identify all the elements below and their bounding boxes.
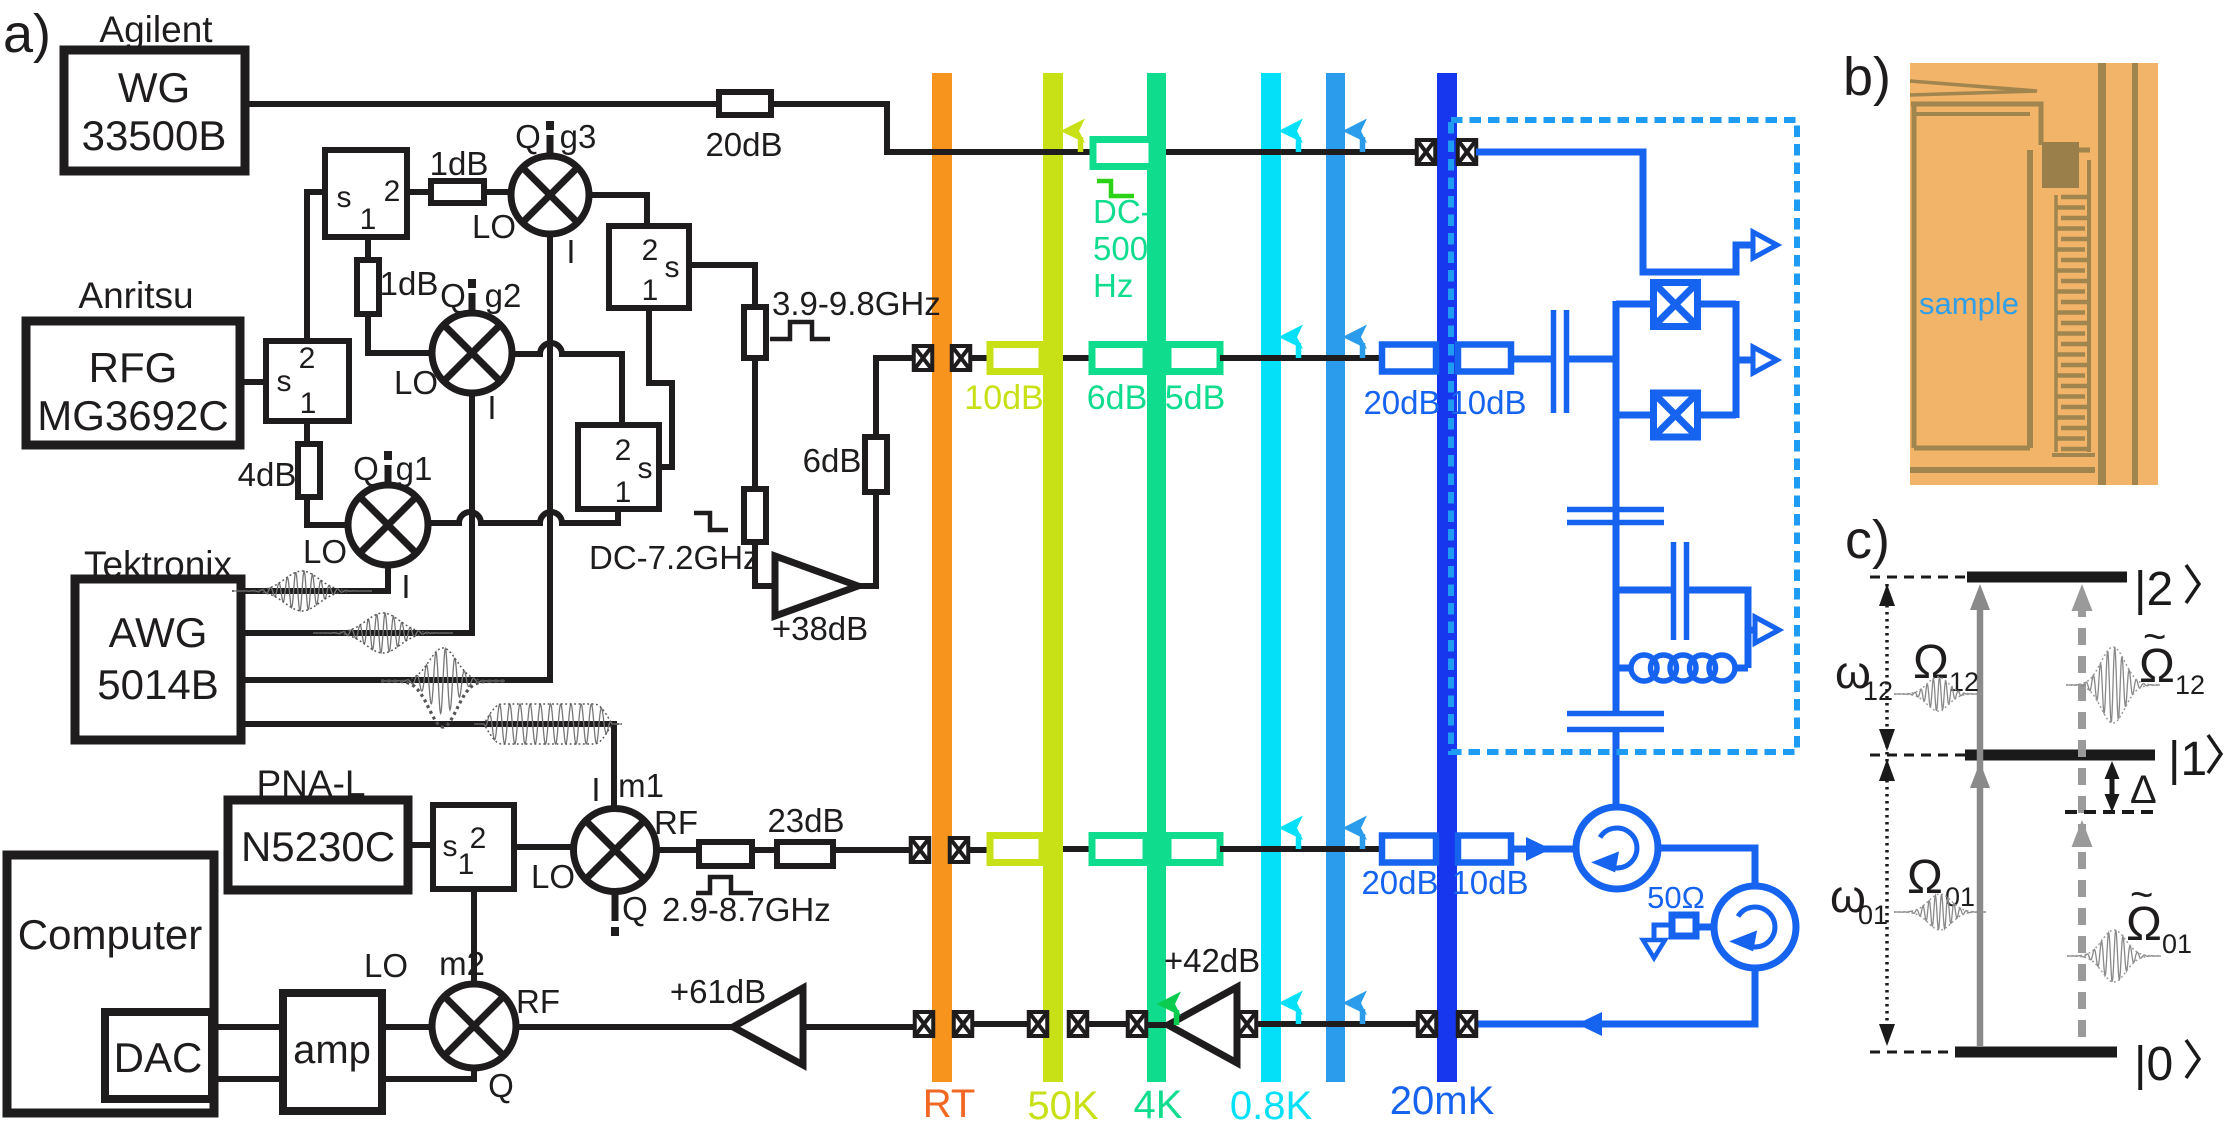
wire S2 s to bandpass bbox=[689, 265, 755, 307]
wire flux line mid bbox=[1166, 149, 1418, 155]
wire ret a bbox=[1256, 1021, 1418, 1027]
g3 Q stub bbox=[546, 121, 554, 157]
instrument DAC bbox=[105, 1012, 212, 1099]
svg-text:s: s bbox=[638, 452, 653, 485]
label LO of m1 bbox=[531, 858, 575, 895]
svg-text:500: 500 bbox=[1093, 230, 1148, 267]
amplifier +38dB bbox=[775, 556, 858, 616]
wire g3 out to S2 port2 bbox=[589, 195, 647, 226]
panel label c) bbox=[1845, 510, 1890, 570]
wire drive line a bbox=[970, 355, 994, 361]
label 10dB drive b bbox=[1449, 384, 1526, 421]
label I of g2 bbox=[487, 389, 496, 426]
label RT bbox=[923, 1082, 976, 1125]
svg-text:20dB: 20dB bbox=[705, 126, 782, 163]
svg-text:1dB: 1dB bbox=[380, 265, 439, 302]
label Omega01 tilde bbox=[2126, 873, 2192, 959]
instrument AWG 5014B bbox=[75, 579, 241, 740]
svg-text:b): b) bbox=[1843, 47, 1891, 107]
svg-text:Q: Q bbox=[488, 1067, 514, 1104]
svg-text:m1: m1 bbox=[618, 767, 664, 804]
svg-text:1dB: 1dB bbox=[430, 145, 489, 182]
Omega tilde dashed arrow bbox=[2072, 584, 2093, 1046]
flag 0.8K on flux line bbox=[1279, 119, 1304, 153]
label 6dB bbox=[803, 442, 862, 479]
connector ret 0b bbox=[954, 1012, 973, 1036]
instrument RFG MG3692C bbox=[26, 321, 240, 445]
bandpass symbol a bbox=[770, 322, 830, 339]
readout input arrow bbox=[1526, 837, 1551, 861]
50K stage bar bbox=[1043, 73, 1063, 1082]
svg-text:6dB: 6dB bbox=[1087, 379, 1148, 417]
label LO of m2 bbox=[364, 947, 408, 984]
label g1 bbox=[396, 450, 433, 487]
svg-text:50Ω: 50Ω bbox=[1647, 880, 1705, 915]
label Q of g1 bbox=[353, 450, 379, 487]
filter 10dB (50K) ro bbox=[990, 836, 1042, 863]
label Hz bbox=[1093, 267, 1133, 304]
level |1> bar bbox=[1965, 750, 2155, 761]
flag 0.8K on ret line bbox=[1279, 991, 1304, 1025]
svg-text:LO: LO bbox=[303, 533, 347, 570]
lowpass symbol a bbox=[694, 513, 728, 530]
filter 6dB (4K) ro bbox=[1092, 836, 1146, 863]
filter 5dB (4K) drive bbox=[1168, 345, 1220, 372]
bandpass symbol b bbox=[696, 877, 753, 893]
wire m1 RF to bandpass bbox=[656, 847, 699, 853]
svg-text:MG3692C: MG3692C bbox=[37, 392, 228, 439]
label DC-7.2GHz bbox=[589, 539, 760, 576]
delta dashed level bbox=[2065, 810, 2155, 814]
attenuator 20dB (room) bbox=[719, 92, 771, 115]
bandpass filter 3.9-9.8GHz bbox=[744, 307, 766, 358]
amplifier +42dB bbox=[1168, 987, 1237, 1063]
m1 Q stub bbox=[611, 892, 619, 936]
wire amp to m2 Q bbox=[382, 1068, 474, 1079]
wire g2 out to S3 port2 (hop over g3 I) bbox=[512, 343, 622, 425]
label 1dB b bbox=[380, 265, 439, 302]
wire circ1 to circ2 bbox=[1658, 848, 1755, 886]
svg-text:amp: amp bbox=[293, 1028, 371, 1072]
wire drive line b bbox=[1063, 355, 1092, 361]
qubit vertical wire bbox=[1613, 415, 1620, 711]
mixer m2 bbox=[432, 984, 516, 1068]
connector drive 2 bbox=[952, 346, 971, 370]
svg-text:Q: Q bbox=[440, 277, 466, 314]
mixer g2 bbox=[432, 313, 512, 393]
connector ret 2 bbox=[1069, 1012, 1088, 1036]
wire flux to antenna (blue) bbox=[1476, 152, 1753, 272]
label g3 bbox=[560, 118, 597, 155]
connector ret 0a bbox=[915, 1012, 934, 1036]
flag 50K on flux line bbox=[1061, 119, 1086, 153]
label 3.9-9.8GHz bbox=[772, 285, 941, 322]
panel label a) bbox=[3, 4, 51, 64]
svg-text:12: 12 bbox=[1863, 676, 1893, 706]
label 50K bbox=[1027, 1084, 1098, 1125]
wire WG output bbox=[245, 104, 1093, 152]
label +61dB bbox=[670, 973, 766, 1010]
svg-text:LO: LO bbox=[394, 364, 438, 401]
label Omega01 bbox=[1907, 851, 1975, 912]
svg-text:10dB: 10dB bbox=[1451, 864, 1528, 901]
svg-text:LO: LO bbox=[364, 947, 408, 984]
svg-text:01: 01 bbox=[2162, 929, 2192, 959]
Omega solid arrow bbox=[1970, 584, 1990, 1046]
attenuator 23dB bbox=[777, 842, 833, 866]
svg-text:Δ: Δ bbox=[2130, 768, 2157, 812]
svg-text:10dB: 10dB bbox=[1449, 384, 1526, 421]
wire ro a bbox=[968, 847, 994, 853]
wire S-PNA port2 to m1 LO bbox=[514, 844, 577, 850]
label Delta bbox=[2130, 768, 2157, 812]
svg-text:Q: Q bbox=[515, 118, 541, 155]
ket |2> bbox=[2134, 563, 2199, 616]
label m2 bbox=[439, 945, 485, 982]
svg-text:2: 2 bbox=[615, 434, 632, 467]
wire ret c bbox=[1087, 1021, 1128, 1027]
wire DAC to amp bbox=[212, 1076, 283, 1082]
pulse icon Omega01 bbox=[1894, 894, 1986, 930]
svg-text:5014B: 5014B bbox=[97, 661, 218, 708]
svg-text:LO: LO bbox=[531, 858, 575, 895]
svg-text:3.9-9.8GHz: 3.9-9.8GHz bbox=[772, 285, 941, 322]
svg-text:|2: |2 bbox=[2134, 563, 2173, 616]
svg-text:2: 2 bbox=[642, 234, 659, 267]
still stage bar (light blue) bbox=[1326, 73, 1345, 1082]
splitter S-PNA bbox=[433, 805, 514, 889]
squid right node wire bbox=[1733, 301, 1740, 418]
label +42dB bbox=[1164, 942, 1260, 979]
svg-text:2: 2 bbox=[299, 342, 316, 375]
circulator 2 bbox=[1714, 886, 1796, 968]
connector ret 1 bbox=[1029, 1012, 1048, 1036]
svg-text:a): a) bbox=[3, 4, 51, 64]
svg-text:N5230C: N5230C bbox=[241, 823, 395, 870]
flag still on flux line bbox=[1343, 119, 1368, 153]
svg-text:33500B: 33500B bbox=[82, 112, 227, 159]
coupling capacitor drive bbox=[1554, 310, 1567, 413]
label g2 bbox=[485, 277, 522, 314]
wire ro c bbox=[1220, 846, 1384, 852]
circulator 1 bbox=[1576, 807, 1658, 889]
wire bandpass to lowpass bbox=[752, 358, 758, 489]
svg-text:0.8K: 0.8K bbox=[1230, 1084, 1313, 1120]
instrument Computer bbox=[7, 855, 214, 1113]
attenuator 1dB a bbox=[431, 181, 484, 203]
label 20dB drive bbox=[1363, 384, 1440, 421]
squid top branch wire bbox=[1616, 301, 1654, 308]
wire 4dB to g1 LO bbox=[307, 497, 349, 525]
svg-text:50K: 50K bbox=[1027, 1084, 1098, 1120]
label LO of g3 bbox=[472, 208, 516, 245]
svg-text:AWG: AWG bbox=[109, 609, 208, 656]
svg-text:WG: WG bbox=[118, 64, 190, 111]
resonator cap wire bbox=[1689, 590, 1755, 630]
label 10dB drive bbox=[964, 379, 1043, 417]
wire S-RFG port1 down bbox=[304, 421, 310, 447]
wire g1 I down to AWG ch1 bbox=[241, 565, 388, 591]
RT stage bar (orange) bbox=[932, 73, 952, 1082]
svg-text:|1: |1 bbox=[2168, 733, 2207, 786]
flux antenna arrow bbox=[1753, 232, 1777, 258]
label PNA-L bbox=[257, 763, 366, 804]
svg-text:20mK: 20mK bbox=[1390, 1079, 1495, 1120]
omega01 arrowheads bbox=[1879, 759, 1895, 1046]
svg-text:2.9-8.7GHz: 2.9-8.7GHz bbox=[662, 891, 831, 928]
lowpass symbol DC-500Hz bbox=[1097, 181, 1134, 196]
combiner S2 bbox=[609, 226, 689, 308]
label omega01 bbox=[1830, 870, 1888, 930]
svg-text:c): c) bbox=[1845, 510, 1890, 570]
svg-text:Agilent: Agilent bbox=[99, 9, 213, 50]
connector ro 2 bbox=[950, 838, 969, 862]
attenuator 10dB (20mK) drive bbox=[1458, 345, 1511, 372]
g1 Q stub bbox=[384, 451, 392, 486]
label RF of m1 bbox=[654, 804, 698, 841]
label 4K bbox=[1134, 1083, 1183, 1125]
svg-text:+38dB: +38dB bbox=[772, 610, 868, 647]
amplifier +61dB bbox=[733, 988, 803, 1065]
wire ro to circ1 bbox=[1511, 846, 1576, 853]
label 6dB drive bbox=[1087, 379, 1148, 417]
instrument N5230C bbox=[228, 800, 408, 890]
connector ret 4 bbox=[1238, 1012, 1257, 1036]
wire 23dB to conn bbox=[833, 847, 911, 853]
label I of g3 bbox=[566, 233, 575, 270]
svg-text:I: I bbox=[401, 568, 410, 605]
mixer m1 bbox=[574, 809, 657, 892]
wire 1dB to g3 LO bbox=[484, 189, 511, 195]
wire lowpass to amp38 bbox=[755, 542, 774, 586]
level |0> bar bbox=[1955, 1047, 2117, 1058]
wire amp to m2 bbox=[382, 1024, 432, 1030]
label 2.9-8.7GHz bbox=[662, 891, 831, 928]
wire S1 port1 down to 1dB b bbox=[365, 237, 371, 260]
wire circ2 down and return bbox=[1477, 968, 1755, 1024]
label sample bbox=[1919, 286, 2019, 321]
flag 0.8K on ro line bbox=[1279, 816, 1304, 850]
svg-text:12: 12 bbox=[2175, 670, 2205, 700]
wire amp61 to m2 RF bbox=[516, 1024, 733, 1030]
svg-text:01: 01 bbox=[1858, 900, 1888, 930]
attenuator 20dB (20mK) ro bbox=[1382, 836, 1436, 863]
junction JJ1 bbox=[1654, 283, 1698, 327]
svg-text:Hz: Hz bbox=[1093, 267, 1133, 304]
readout pulse waveform ch4 bbox=[474, 704, 622, 744]
wire cap to squid node bbox=[1569, 356, 1616, 363]
shunt capacitor C2 bbox=[1567, 714, 1664, 730]
squid left node wire bbox=[1613, 301, 1620, 418]
dashed sample box bbox=[1451, 120, 1797, 752]
level |2> bar bbox=[1967, 572, 2127, 583]
pulse icon Omega12 tilde bbox=[2066, 647, 2160, 723]
svg-text:~: ~ bbox=[2130, 873, 2153, 917]
label RF of m2 bbox=[516, 983, 560, 1020]
svg-text:RFG: RFG bbox=[89, 344, 178, 391]
flag still on ro line bbox=[1343, 816, 1368, 850]
pulse waveform ch2 bbox=[313, 613, 453, 653]
svg-text:20dB: 20dB bbox=[1363, 384, 1440, 421]
level |1> dashed ext bbox=[1870, 754, 1965, 757]
wire 50ohm to gnd arrow bbox=[1654, 925, 1672, 940]
wire RFG to S-RFG bbox=[240, 379, 266, 385]
pulse icon Omega01 tilde bbox=[2067, 930, 2161, 982]
svg-text:I: I bbox=[487, 389, 496, 426]
label Agilent bbox=[99, 9, 213, 50]
pulse waveform ch1 bbox=[232, 571, 372, 611]
ket |0> bbox=[2134, 1038, 2199, 1091]
svg-text:s: s bbox=[665, 251, 680, 284]
label 500 bbox=[1093, 230, 1148, 267]
svg-text:DC-7.2GHz: DC-7.2GHz bbox=[589, 539, 760, 576]
filter 6dB (4K) drive bbox=[1092, 345, 1146, 372]
bandpass filter 2.9-8.7GHz bbox=[699, 842, 752, 866]
svg-text:Ω: Ω bbox=[1907, 851, 1943, 904]
label LO of g2 bbox=[394, 364, 438, 401]
svg-text:~: ~ bbox=[2143, 615, 2166, 659]
omega span dotted line bbox=[1885, 584, 1889, 1046]
wire qubit to circulator bbox=[1613, 732, 1620, 808]
resonator inductor bbox=[1616, 630, 1748, 681]
svg-text:DC-: DC- bbox=[1093, 193, 1152, 230]
svg-text:s: s bbox=[337, 181, 352, 214]
wire 6dB up to drive line bbox=[876, 358, 905, 437]
lowpass filter DC-7.2GHz bbox=[744, 489, 766, 542]
label 20mK bbox=[1390, 1079, 1495, 1123]
wire g1 out to S3 port1 (hops) bbox=[428, 509, 618, 523]
attenuator 10dB (20mK) ro bbox=[1458, 836, 1511, 863]
label 5dB drive bbox=[1165, 379, 1226, 417]
label Omega12 tilde bbox=[2139, 615, 2205, 700]
amp box bbox=[283, 993, 382, 1111]
attenuator 1dB b bbox=[357, 260, 379, 314]
delta arrow bbox=[2105, 761, 2120, 812]
wire N5230C to S-PNA bbox=[408, 842, 433, 848]
label I of m1 bbox=[591, 771, 600, 808]
ket |1> bbox=[2168, 733, 2221, 786]
pulse icon Omega12 bbox=[1894, 677, 1982, 711]
squid output stub bbox=[1736, 357, 1753, 364]
connector ro 1 bbox=[911, 838, 930, 862]
wire S-PNA port1 to m2 LO bbox=[471, 889, 477, 984]
resonator output arrow bbox=[1755, 617, 1779, 643]
svg-text:20dB: 20dB bbox=[1361, 864, 1438, 901]
svg-text:1: 1 bbox=[615, 476, 632, 509]
label 0.8K bbox=[1230, 1084, 1313, 1125]
svg-text:g1: g1 bbox=[396, 450, 433, 487]
svg-text:RT: RT bbox=[923, 1082, 976, 1120]
level |2> dashed ext bbox=[1870, 576, 1967, 579]
filter DC-500Hz bbox=[1093, 140, 1152, 167]
mixer g3 bbox=[511, 156, 589, 234]
label Q of m1 bbox=[622, 890, 648, 927]
svg-text:+42dB: +42dB bbox=[1164, 942, 1260, 979]
svg-text:DAC: DAC bbox=[114, 1034, 203, 1081]
wire 1dB b to g2 LO bbox=[368, 314, 433, 353]
label I of g1 bbox=[401, 568, 410, 605]
svg-text:g3: g3 bbox=[560, 118, 597, 155]
connector flux right bbox=[1458, 140, 1477, 164]
svg-text:4K: 4K bbox=[1134, 1083, 1183, 1120]
svg-text:10dB: 10dB bbox=[964, 379, 1043, 417]
svg-text:m2: m2 bbox=[439, 945, 485, 982]
flag still on drive line bbox=[1343, 325, 1368, 359]
wire ro b bbox=[1063, 846, 1092, 852]
wire bp to 23dB bbox=[752, 847, 777, 853]
label 20dB room bbox=[705, 126, 782, 163]
shunt capacitor C1 bbox=[1567, 510, 1664, 523]
svg-text:|0: |0 bbox=[2134, 1038, 2173, 1091]
resonator capacitor bbox=[1674, 542, 1687, 640]
label +38dB bbox=[772, 610, 868, 647]
return arrow bbox=[1577, 1012, 1602, 1036]
label LO of g1 bbox=[303, 533, 347, 570]
label 10dB ro bbox=[1451, 864, 1528, 901]
svg-text:s: s bbox=[277, 365, 292, 398]
label DC- bbox=[1093, 193, 1152, 230]
connector ret 5 bbox=[1418, 1012, 1437, 1036]
label Tektronix bbox=[84, 544, 233, 585]
wire circ2 to 50ohm bbox=[1696, 924, 1714, 931]
label Omega12 bbox=[1913, 636, 1979, 697]
label 23dB bbox=[767, 802, 844, 839]
svg-text:1: 1 bbox=[458, 848, 475, 881]
instrument WG 33500B bbox=[64, 50, 245, 171]
wire S2 port1 to S3 s port bbox=[649, 308, 672, 467]
svg-text:1: 1 bbox=[360, 203, 377, 236]
svg-text:+61dB: +61dB bbox=[670, 973, 766, 1010]
mixer g1 bbox=[348, 485, 428, 565]
svg-text:I: I bbox=[591, 771, 600, 808]
svg-text:Anritsu: Anritsu bbox=[78, 275, 193, 316]
squid top branch wire b bbox=[1697, 301, 1736, 308]
svg-text:1: 1 bbox=[642, 274, 659, 307]
attenuator 20dB (20mK) drive bbox=[1382, 345, 1436, 372]
sample photo bbox=[1910, 63, 2158, 485]
filter 10dB (50K) drive bbox=[990, 345, 1042, 372]
label 20dB ro bbox=[1361, 864, 1438, 901]
label Q of m2 bbox=[488, 1067, 514, 1104]
squid bottom branch wire b bbox=[1697, 412, 1736, 419]
level |0> dashed ext bbox=[1870, 1051, 1955, 1054]
wire drive to cap bbox=[1511, 356, 1551, 363]
label m1 bbox=[618, 767, 664, 804]
wire drive line c bbox=[1220, 355, 1384, 361]
wire drive line left bbox=[876, 355, 914, 361]
connector ret 3 bbox=[1128, 1012, 1147, 1036]
wire AWG ch4 to m1 I bbox=[241, 724, 614, 806]
svg-text:1: 1 bbox=[300, 387, 317, 420]
svg-text:6dB: 6dB bbox=[803, 442, 862, 479]
label 50ohm bbox=[1647, 880, 1705, 915]
splitter S-RFG bbox=[266, 341, 349, 421]
wire computer to amp bbox=[214, 1024, 283, 1030]
svg-text:g2: g2 bbox=[485, 277, 522, 314]
svg-text:Q: Q bbox=[622, 890, 648, 927]
omega12 arrowheads bbox=[1879, 584, 1895, 751]
attenuator 4dB bbox=[298, 444, 320, 497]
connector ret 6 bbox=[1458, 1012, 1477, 1036]
wire amp38 to 6dB bbox=[858, 492, 876, 586]
20mK stage bar bbox=[1437, 73, 1457, 1082]
terminator 50ohm bbox=[1672, 915, 1696, 936]
svg-text:RF: RF bbox=[516, 983, 560, 1020]
wire S1 port2 to 1dB bbox=[407, 189, 431, 195]
svg-text:5dB: 5dB bbox=[1165, 379, 1226, 417]
0.8K stage bar (cyan) bbox=[1261, 73, 1281, 1082]
label Q of g3 bbox=[515, 118, 541, 155]
